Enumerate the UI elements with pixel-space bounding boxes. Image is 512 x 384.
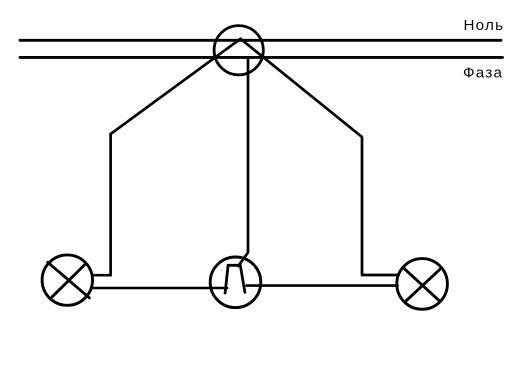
wire: neutral from junction peak to left lamp: [93, 39, 241, 275]
wire: phase bus (Фаза): [20, 56, 503, 59]
svg-text:Ноль: Ноль: [464, 17, 504, 34]
wire: neutral bus (Ноль): [20, 39, 501, 42]
wire: phase from bus down to switch: [238, 57, 248, 266]
junction box J1: [214, 26, 263, 75]
svg-text:Фаза: Фаза: [463, 65, 503, 82]
wire: neutral from junction peak to right lamp: [241, 39, 398, 275]
lamp EL1 (left): [42, 255, 92, 305]
wire: switch right pole to right lamp: [247, 284, 398, 287]
wire: switch left pole to left lamp: [91, 287, 227, 290]
switch S1: [210, 257, 261, 308]
lamp EL2 (right): [397, 259, 448, 310]
